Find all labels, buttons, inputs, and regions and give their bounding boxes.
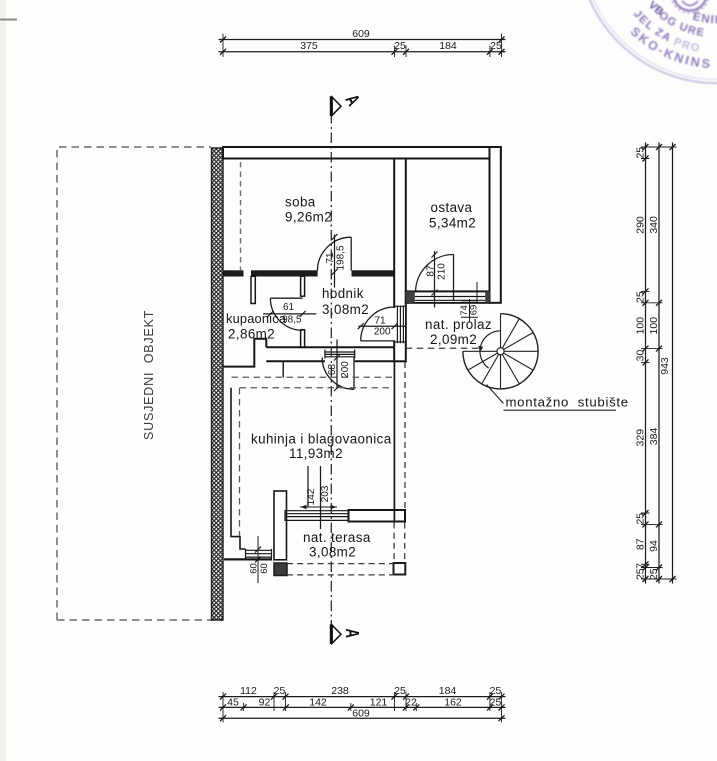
svg-text:25: 25	[648, 568, 660, 580]
bottom dimension row2: 45/92/142/121/22/162/25	[219, 706, 506, 708]
spiral staircase: inner winding arc	[480, 331, 501, 368]
svg-text:A: A	[341, 629, 362, 639]
svg-text:329: 329	[634, 429, 646, 447]
svg-text:210: 210	[437, 263, 448, 280]
svg-text:30: 30	[634, 350, 646, 362]
wall: north exterior wall	[223, 147, 501, 159]
svg-text:71: 71	[374, 315, 386, 326]
bottom dimension row3 total 609	[219, 717, 506, 719]
wall: soba/ostava divider continuing as hodnik east wall	[394, 159, 406, 362]
svg-text:162: 162	[444, 696, 462, 708]
svg-text:200: 200	[340, 361, 351, 378]
svg-text:142: 142	[309, 696, 327, 708]
svg-text:25: 25	[634, 513, 646, 525]
right dimension column 3 (943)	[672, 143, 674, 584]
svg-text:11,93m2: 11,93m2	[289, 446, 343, 461]
bottom dimension row1: 112/25/238/25/184/25	[219, 696, 506, 698]
svg-text:94: 94	[648, 540, 660, 552]
svg-text:238: 238	[331, 685, 349, 697]
dim: kitchen window 142/203	[308, 466, 321, 529]
scan artifact: left margin shade	[0, 0, 6, 761]
wall: stub left of kitchen window	[274, 491, 287, 560]
wall: kupaonica plumbing stub	[251, 276, 255, 303]
threshold: ostava door sill	[406, 291, 490, 302]
svg-text:384: 384	[648, 428, 660, 446]
svg-text:100: 100	[634, 317, 646, 335]
spiral staircase: centre post	[497, 348, 504, 355]
wall: kuhinja east wall inner line	[393, 361, 395, 521]
spiral staircase: direction arrow on inner arc	[478, 346, 483, 353]
wall: kuhinja south wall east piece	[349, 510, 406, 522]
svg-text:kupaonica: kupaonica	[226, 311, 287, 326]
dim: prolaz step 74/69	[461, 282, 478, 323]
svg-text:25: 25	[394, 685, 406, 697]
door soba->hodnik: swing arc	[317, 237, 351, 271]
dashed outline over kuhinja west edge	[239, 388, 241, 536]
wall: kuhinja west wall line with entry step	[231, 388, 246, 549]
svg-text:290: 290	[634, 216, 646, 234]
door prolaz->hodnik: leaf	[361, 340, 395, 342]
svg-text:2,86m2: 2,86m2	[228, 326, 275, 341]
svg-text:25: 25	[490, 40, 502, 52]
svg-text:7: 7	[634, 563, 646, 569]
svg-text:ostava: ostava	[431, 200, 473, 215]
dim: kuhinja door 68/200	[336, 340, 338, 390]
svg-text:25: 25	[634, 291, 646, 303]
svg-text:2,09m2: 2,09m2	[430, 332, 477, 347]
svg-text:22: 22	[405, 696, 417, 708]
wall: east exterior wall (ostava)	[490, 147, 501, 303]
dim: soba door 71/198,5	[334, 235, 336, 288]
svg-text:71: 71	[325, 252, 336, 264]
wall: soba south wall (solid)	[223, 270, 394, 276]
svg-text:3,08m2: 3,08m2	[309, 545, 356, 560]
door hodnik->kuhinja: leaf	[353, 358, 355, 390]
wall: ostava south wall	[406, 291, 490, 302]
dashed roof edge over nat. prolaz	[406, 347, 481, 349]
right dimension column 1	[645, 143, 647, 584]
svg-text:9,26m2: 9,26m2	[285, 210, 332, 225]
neighbouring building dashed outline (susjedni objekt)	[57, 147, 211, 620]
dashed line in soba (edge of floor above)	[240, 162, 242, 270]
svg-text:68: 68	[327, 364, 338, 376]
terasa column right	[394, 563, 406, 575]
wall: kupaonica east partition lower piece	[301, 330, 305, 348]
top dims extension lines	[223, 34, 502, 58]
threshold: terasa entry sill	[246, 549, 272, 558]
spiral staircase: outer arc (270 deg, open to upper-left)	[463, 314, 538, 389]
party wall with cross hatch	[212, 148, 224, 620]
top dimension line row2: 375/25/184/25	[219, 51, 506, 53]
svg-text:100: 100	[648, 317, 660, 335]
terasa dashed side east outer	[404, 523, 406, 563]
svg-text:200: 200	[374, 327, 391, 338]
wall: kupaonica east partition upper piece	[301, 276, 305, 296]
svg-text:375: 375	[300, 40, 318, 52]
dashed bottom edge of neighbouring building	[57, 619, 223, 621]
svg-text:hodnik: hodnik	[322, 286, 364, 301]
svg-text:soba: soba	[285, 195, 316, 210]
kitchen counter edge	[282, 361, 284, 377]
svg-text:184: 184	[439, 685, 457, 697]
stamp: central emblem	[674, 0, 707, 11]
svg-text:25: 25	[634, 147, 646, 159]
svg-text:609: 609	[352, 708, 370, 720]
svg-text:nat. prolaz: nat. prolaz	[425, 317, 492, 332]
window: kitchen south window	[285, 510, 349, 521]
section line A-A (dash-dot)	[330, 113, 332, 626]
svg-text:184: 184	[439, 40, 457, 52]
svg-text:3,08m2: 3,08m2	[322, 302, 369, 317]
door kupaonica: swing arc	[270, 298, 302, 330]
spiral staircase: treads	[463, 314, 538, 389]
door prolaz->hodnik: swing arc	[361, 307, 395, 341]
section marker top: triangle	[332, 97, 341, 115]
door prolaz->hodnik: threshold	[393, 306, 405, 344]
wall: hodnik/kuhinja north wall (hollow)	[266, 347, 394, 361]
svg-text:montažno stubište: montažno stubište	[506, 395, 629, 410]
right dimension column 2	[658, 143, 660, 584]
terasa dashed edge lower	[287, 574, 394, 576]
wall: kuhinja east wall outer edge (dashed, under floor above)	[404, 362, 406, 508]
svg-text:87: 87	[425, 265, 436, 277]
stamp: outer circle	[579, 0, 717, 83]
svg-text:25: 25	[634, 568, 646, 580]
svg-text:87: 87	[634, 538, 646, 550]
svg-text:92: 92	[259, 696, 271, 708]
door hodnik->kuhinja: swing arc	[322, 358, 354, 390]
svg-text:943: 943	[659, 357, 671, 375]
svg-text:25: 25	[394, 40, 406, 52]
svg-text:SUSJEDNI OBJEKT: SUSJEDNI OBJEKT	[142, 310, 156, 440]
door kupaonica: leaf	[270, 297, 302, 299]
svg-text:203: 203	[320, 485, 331, 502]
right dims extension lines	[641, 147, 677, 579]
dim: kupaonica door 61/98,5	[263, 313, 316, 315]
door ostava: swing arc	[416, 255, 454, 293]
top dimension line total 609	[219, 39, 506, 41]
svg-text:nat. terasa: nat. terasa	[303, 530, 371, 545]
svg-text:112: 112	[240, 685, 257, 697]
terasa column left (filled)	[274, 563, 287, 576]
svg-text:25: 25	[274, 685, 286, 697]
svg-text:121: 121	[370, 696, 388, 708]
dashed outline over kuhinja (gallery above) line 2	[240, 387, 395, 389]
svg-text:340: 340	[648, 216, 660, 234]
svg-text:609: 609	[352, 28, 370, 40]
terasa base edge line	[224, 558, 272, 560]
svg-text:69: 69	[469, 305, 480, 316]
svg-text:45: 45	[227, 696, 239, 708]
svg-text:142: 142	[306, 488, 317, 505]
svg-text:60: 60	[249, 563, 260, 574]
door ostava: leaf	[453, 255, 455, 302]
svg-text:25: 25	[490, 696, 502, 708]
bottom dims extension lines	[223, 692, 502, 723]
svg-text:kuhinja i blagovaonica: kuhinja i blagovaonica	[251, 432, 392, 447]
svg-text:5,34m2: 5,34m2	[429, 216, 476, 231]
dim: entry door 71/200	[358, 325, 406, 327]
door soba->hodnik: leaf	[350, 237, 352, 270]
terasa dashed edge upper	[287, 563, 394, 565]
svg-text:198,5: 198,5	[336, 245, 347, 270]
section marker bottom: triangle	[332, 625, 341, 643]
terasa dashed side east inner	[393, 523, 395, 563]
svg-text:60: 60	[259, 563, 270, 574]
threshold: kuhinja door sill	[325, 350, 355, 359]
dim: terasa steps 60/60	[257, 536, 259, 583]
dim: ostava door 87/210	[434, 251, 436, 308]
dashed outline over kuhinja (gallery above) line 1	[232, 376, 395, 378]
svg-text:25: 25	[490, 685, 502, 697]
wall: kupaonica south stepped boundary	[224, 339, 267, 367]
scan artifact: top-left corner mark	[0, 19, 17, 21]
leader line to label	[487, 385, 504, 404]
